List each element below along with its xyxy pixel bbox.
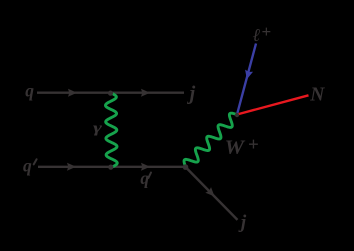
svg-text:q: q (23, 155, 32, 175)
vertex: q-photon (108, 91, 113, 96)
svg-text:q: q (25, 80, 34, 100)
arrow on lepton line (pointing to vertex) (245, 70, 253, 80)
arrow on intermediate q-prime line (141, 163, 150, 171)
arrow on outgoing jet line (205, 187, 214, 196)
wire: outgoing jet line (lower right) (186, 167, 238, 220)
svg-text:+: + (261, 22, 271, 41)
lepton l+ line (blue) (237, 44, 256, 115)
svg-text:γ: γ (93, 120, 102, 137)
svg-text:N: N (309, 85, 325, 106)
svg-text:ℓ: ℓ (253, 25, 261, 45)
W+ boson propagator (184, 113, 236, 166)
arrow on q line (incoming) (68, 89, 77, 97)
vertex: q-prime-W-jet (183, 164, 189, 170)
svg-text:+: + (248, 135, 259, 156)
prime mark of lower-left q-prime (34, 159, 37, 164)
svg-text:W: W (225, 138, 246, 159)
vertex: q-prime-photon (108, 165, 113, 170)
wire: incoming quark q-prime line (38, 166, 186, 168)
photon propagator gamma (105, 93, 117, 167)
prime mark of intermediate q-prime (148, 173, 151, 178)
vertex: W-lepton-N (235, 113, 239, 117)
arrow on q-prime line (incoming) (67, 163, 76, 171)
heavy neutrino N line (red) (237, 95, 309, 114)
wire: incoming quark q line (37, 91, 184, 93)
arrow on outgoing j line (top) (141, 89, 150, 97)
